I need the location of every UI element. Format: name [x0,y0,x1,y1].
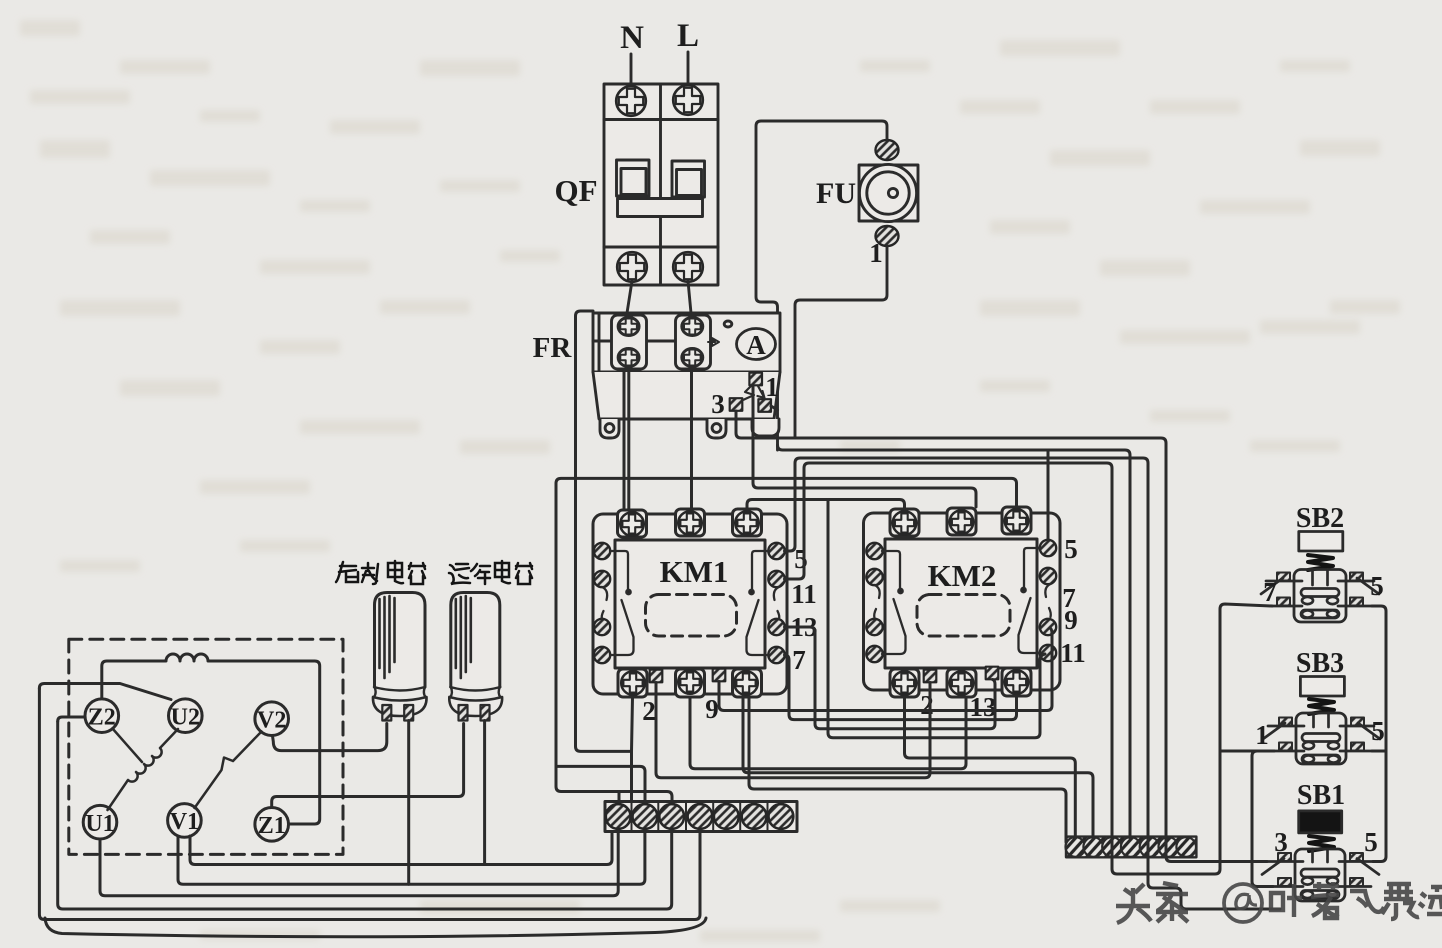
contactor KM2 outer frame [864,513,1061,690]
FR screw bottom-right [682,349,703,367]
KM2 left screw 2 [866,569,882,585]
KM1 right screw 7 [768,647,784,663]
wire run cap right pin down [483,721,486,865]
strip-R screw 4 [1121,837,1141,857]
SB2 moving bridge [1301,589,1339,605]
label 5 KM1 [794,544,808,574]
fuse FU bottom screw [876,226,899,246]
SB2 NC blade left [1261,578,1283,594]
svg-text:7: 7 [792,645,806,675]
svg-text:SB1: SB1 [1297,780,1345,811]
svg-text:Z1: Z1 [258,813,286,839]
FR contact zigzag [743,385,754,400]
KM2 left screw 4 [866,646,882,662]
wire KM1-11 to SB2 bus [785,463,1273,874]
svg-text:3: 3 [1274,827,1288,857]
svg-text:1: 1 [765,372,779,402]
breaker QF handle right pole [672,161,705,197]
KM1 top pad left [618,510,647,537]
pushbutton SB1 [1262,780,1379,901]
svg-text:KM1: KM1 [660,554,729,589]
KM2 right screw 7 [1040,568,1056,584]
fuse FU top screw [876,140,899,160]
KM2 bottom pad right [1002,668,1031,696]
KM1 bottom pad right [733,669,762,697]
motor terminal box dashed [69,639,343,854]
watermark 头条 @叶落飞舞拉 [1116,882,1442,923]
wire branch to SB3 left [1220,750,1274,753]
svg-text:5: 5 [794,544,808,574]
strip screw 4 [688,804,713,829]
KM1 top screw left [620,512,644,536]
label 7 KM1 [792,645,806,675]
svg-text:1: 1 [869,238,883,268]
svg-text:11: 11 [1060,638,1086,668]
KM2 right contact [1019,548,1051,653]
label 5 KM2 [1064,534,1078,564]
SB3 cap [1300,677,1344,697]
C-start crimp [374,687,426,697]
strip-R screw 6 [1159,837,1179,857]
SB3 plunger [1314,713,1329,727]
strip screw 1 [606,804,631,829]
strip screw 3 [659,804,684,829]
label 1 at FR [765,372,779,402]
SB1 lower bridge [1301,891,1339,899]
FR lower trapezoid [593,372,780,419]
svg-text:U2: U2 [171,705,200,731]
KM2 right screw 9 [1040,619,1056,635]
breaker QF body [604,84,718,285]
svg-text:13: 13 [970,692,997,722]
wire KM1 top-right to KM2 top-left [747,500,905,510]
KM2 top pad left [890,509,919,536]
wire SB right bus [1372,606,1386,862]
strip screw 6 [742,804,767,829]
breaker QF screw top-left [616,86,646,116]
C-run pin left [459,705,468,721]
svg-text:V1: V1 [170,809,199,835]
KM2 top screw left [893,511,917,535]
KM2 bottom screw right [1005,670,1029,694]
svg-text:U1: U1 [85,811,114,837]
pushbutton SB2 [1261,503,1384,622]
label run capacitor [449,561,532,584]
KM1 left contact [602,551,634,655]
KM1 coil dashed box [646,595,737,637]
SB3 lower contact rail [1274,750,1372,753]
FR screw bottom-left [618,349,639,367]
wire KM1-9 to KM2-9 [719,628,1052,711]
C-start pin right [404,705,413,721]
svg-text:2: 2 [920,690,934,720]
SB2 cap [1299,532,1343,552]
KM2 top pad middle [947,508,976,535]
wire FR area to KM2-11 [828,500,1045,738]
strip-R screw 2 [1083,837,1103,857]
KM2 bottom pad left [890,669,919,697]
label 7 KM2 [1062,583,1076,613]
SB2 NC blade right [1357,578,1379,594]
node L label [677,18,699,54]
contactor KM2 inner body [885,539,1037,668]
SB3 lower terminal screw right [1351,743,1364,751]
SB3 upper terminal screw left [1279,718,1292,726]
svg-text:11: 11 [791,579,817,609]
KM2 bottom screw middle [950,671,974,695]
KM1 right screw 11 [768,571,784,587]
FR terminal square 3 [730,398,743,411]
wire KM1-13 to KM2-13 [785,627,996,729]
FR pilot dot [724,321,732,327]
wire start cap right pin down [407,721,410,885]
SB2 upper terminal screw left [1277,573,1290,581]
breaker QF screw bottom-right [673,252,703,282]
label 1 at FU [869,238,883,268]
KM2 left screw 1 [866,543,882,559]
C-run pin right [481,705,490,721]
svg-text:Z2: Z2 [88,705,116,731]
C-start pin left [382,705,391,721]
SB1 upper terminal screw left [1278,853,1291,861]
wire strip c1 to U1 [100,832,618,896]
breaker QF handle tie bar [618,199,703,217]
KM2 bottom screw left [893,671,917,695]
strip screw 5 [714,804,739,829]
wire strip c2 to V1 [178,832,645,885]
SB1 cap black [1299,811,1342,833]
label 9 KM2 [1064,605,1078,635]
label 13 KM1 [791,612,818,642]
svg-text:3: 3 [711,389,725,419]
wire KM2-5 up to bus [1047,450,1050,540]
KM1 aux square 9 [713,669,726,682]
SB1 NC blade right [1357,859,1379,875]
KM2 top screw middle [950,510,974,534]
svg-text:SB3: SB3 [1296,648,1344,679]
motor terminal V2 [255,702,289,736]
motor terminal U1 [83,805,117,839]
strip screw 2 [633,804,658,829]
strip-R screw 3 [1102,837,1122,857]
label FU [816,177,856,210]
wire KM1-5 up to bus [785,458,1281,909]
SB2 lower terminal screw right [1350,598,1363,606]
KM1 right contact [747,551,780,655]
FR test arrow [708,338,719,346]
KM1 top pad middle [676,509,705,536]
thermal relay FR body [593,313,780,372]
svg-text:9: 9 [1064,605,1078,635]
svg-text:L: L [677,18,699,54]
SB2 lower bridge [1301,610,1339,618]
SB1 lower contact rail [1273,885,1371,888]
SB1 lower terminal screw right [1350,878,1363,886]
motor terminal V1 [168,804,202,838]
wire FR left bus down [576,311,632,751]
motor link V2-V1 with break [195,732,262,809]
label 11 KM2 [1060,638,1086,668]
svg-text:N: N [620,20,644,56]
wire QF bottom-left to FR [627,281,632,313]
label 13 KM2 [970,692,997,722]
SB1 moving bridge [1301,869,1339,885]
svg-text:FU: FU [816,177,856,210]
KM1 right screw 13 [768,619,784,635]
label 2 KM2 [920,690,934,720]
KM1 bottom pad middle [676,669,705,697]
strip-R screw 1 [1066,837,1086,857]
label 11 KM1 [791,579,817,609]
label FR [533,332,573,364]
SB2 plunger [1313,570,1328,586]
KM1 bottom screw right [734,671,758,695]
wire bus to strip2 [556,766,645,801]
motor winding Z2 link [113,729,143,763]
svg-text:KM2: KM2 [928,558,997,593]
KM1 aux square 2 [650,670,663,683]
svg-text:FR: FR [533,332,573,364]
KM1 bottom screw left [621,671,645,695]
fuse FU body [859,164,918,221]
svg-text:1: 1 [1255,720,1269,750]
KM1 left screw 1 [594,543,610,559]
label 2 KM1 [642,696,656,726]
svg-text:A: A [746,330,766,360]
wire KM1 bottom-left to strip [632,697,633,802]
wire SB3 left to SB1 left lower [1252,751,1274,887]
svg-text:7: 7 [1263,577,1277,607]
KM2 right screw 11 [1040,645,1056,661]
wire FR-BL to KM1 top-left double [624,372,629,510]
wire into Z2 from left [58,717,85,722]
wire FU branch to strip-R [778,445,1131,838]
motor winding U2-U1 [108,729,179,810]
C-run crimp [450,687,500,697]
FR contact arrow [758,386,765,398]
breaker QF screw bottom-left [617,252,647,282]
SB2 body [1294,570,1346,623]
label 3 at FR [711,389,725,419]
strip screw 7 [769,804,794,829]
SB3 body [1296,713,1346,764]
label QF [554,173,597,208]
wire FU top loop to left and down [756,121,887,450]
wire bottom bowed [45,918,706,937]
SB3 lower terminal screw left [1279,743,1292,751]
capacitor C-run body [451,593,500,688]
label KM1 [660,554,729,589]
FR ammeter A [737,329,776,361]
wire QF bottom-right to FR [688,281,691,313]
wire branch to KM2 top-middle [753,386,976,507]
FR screw top-left [618,318,639,336]
svg-text:5: 5 [1370,571,1384,601]
SB1 NC blade left [1262,859,1284,875]
SB3 lower bridge [1302,755,1340,763]
SB3 NC blade right [1358,723,1380,739]
label 9 KM1 [705,694,719,724]
KM2 left screw 3 [866,619,882,635]
FR right extension [752,419,779,436]
svg-text:5: 5 [1371,716,1385,746]
SB2 lower terminal screw left [1277,598,1290,606]
wire strip c4 to U2 loop [39,688,700,920]
SB2 upper terminal screw right [1350,573,1363,581]
terminal strip center [605,802,797,832]
FR NC terminal square 1 [749,373,762,386]
SB3 moving bridge [1302,734,1340,750]
wire SB3 right tap [1372,750,1386,753]
KM2 aux square 2 [924,670,937,683]
wire strip1 drop [618,792,621,802]
KM1 left screw 4 [594,647,610,663]
SB1 spring [1309,836,1334,851]
FR screw top-right [682,318,703,336]
SB1 lower terminal screw left [1278,878,1291,886]
contactor KM1 outer frame [593,514,787,694]
capacitor C-start body [375,593,426,688]
svg-text:5: 5 [1064,534,1078,564]
svg-text:2: 2 [642,696,656,726]
KM1 right screw 5 [768,543,784,559]
wire KM1 bottom-middle to KM2 bottom-middle [690,697,966,769]
svg-text:5: 5 [1364,827,1378,857]
wire KM1-7 to KM2 bottom-right [785,655,1017,720]
KM1 bottom screw middle [678,670,702,694]
wire V1 to strip c1 lower [190,832,612,865]
KM2 top pad right [1002,507,1031,534]
SB3 spring [1309,699,1334,714]
KM2 aux square 13 [986,667,999,680]
KM1 bottom pad left [618,669,647,697]
strip-R screw 7 [1176,837,1196,857]
SB2 upper contact rail [1266,580,1374,583]
SB1 plunger [1313,849,1328,862]
wire N to QF top [630,54,633,86]
strip-R screw 5 [1140,837,1160,857]
wire into U2 from left [39,684,171,700]
wire KM1 bottom-right second [749,697,1066,842]
motor terminal U2 [169,699,203,733]
label start capacitor [336,561,425,584]
breaker QF screw top-right [673,85,703,115]
contactor KM1 inner body [615,540,765,668]
svg-text:QF: QF [554,173,597,208]
SB2 lower contact rail [1272,605,1372,608]
KM2 top screw right [1005,509,1029,533]
FR mounting tab middle [707,419,726,438]
breaker QF handle left pole [617,160,650,196]
KM1 left screw 3 [594,619,610,635]
motor terminal Z1 [255,808,289,842]
SB2 spring [1308,555,1333,570]
SB3 upper terminal screw right [1351,718,1364,726]
wire FR-3 to SB1 upper left [736,411,1267,862]
SB3 NC blade left [1263,723,1285,739]
C-run stripes [456,596,471,678]
FR terminal square right [758,399,771,412]
wire V2 to start capacitor [273,724,387,751]
motor terminal Z2 [85,699,119,733]
KM1 top screw middle [678,511,702,535]
SB1 body [1295,849,1345,901]
KM1 top screw right [735,511,759,535]
wire KM2 top-right long bus to strip1 [556,478,1017,801]
C-start stripes [380,596,395,678]
SB1 upper contact rail [1267,860,1373,863]
svg-text:SB2: SB2 [1296,503,1344,534]
pushbutton SB3 [1255,648,1385,764]
wire FU bottom down-left to node [795,246,887,438]
FR mounting tab left [600,419,619,438]
node N label [620,20,644,56]
SB1 upper terminal screw right [1350,853,1363,861]
wire FR square stub [771,406,778,410]
svg-text:V2: V2 [257,708,286,734]
svg-text:9: 9 [705,694,719,724]
wire KM1-2 to KM2-2 [656,683,930,778]
wire KM1 bottom-right to strip-R c2 [743,697,1093,838]
KM1 top pad right [733,509,762,536]
wire FR-BR to KM1 top-middle [690,372,693,509]
SB3 upper contact rail [1268,725,1374,728]
KM2 coil dashed box [917,595,1010,637]
wire strip c3 to Z2 loop [58,722,672,910]
wire KM2 bottom-left to strip-R c1 [905,697,1076,838]
KM2 bottom pad middle [947,669,976,697]
label KM2 [928,558,997,593]
terminal strip right [1066,837,1196,858]
C-start base skirt [373,697,427,716]
wire Z1 to run capacitor [272,724,464,808]
wire L to QF top [687,52,690,86]
C-run base skirt [449,697,502,716]
KM1 left screw 2 [594,571,610,587]
KM2 left contact [874,551,905,654]
motor inductor top wire [102,654,320,824]
KM2 right screw 5 [1040,540,1056,556]
